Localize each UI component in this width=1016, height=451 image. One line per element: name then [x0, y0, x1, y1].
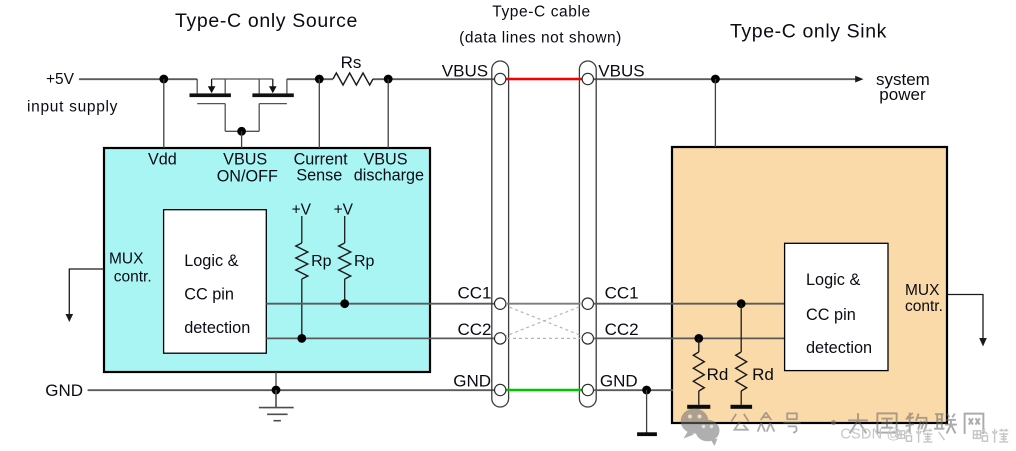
- svg-text:CC2: CC2: [605, 320, 639, 339]
- node current sense junction: [315, 75, 324, 84]
- svg-text:VBUS: VBUS: [442, 61, 488, 80]
- connector plug left: [492, 61, 509, 407]
- wire gate connector: [225, 130, 259, 132]
- wire VBUS through cable (red): [506, 78, 582, 81]
- svg-text:GND: GND: [453, 372, 491, 391]
- pin circle GND left: [495, 384, 506, 395]
- resistor Rd2: [740, 304, 742, 352]
- svg-text:Vdd: Vdd: [148, 151, 177, 169]
- resistor Rp1: [301, 216, 303, 243]
- watermark text 略懂、略懂: [897, 429, 1008, 443]
- wire VBUS ON/OFF pin: [241, 131, 243, 148]
- svg-text:Rd: Rd: [707, 365, 729, 384]
- wire GND main: [88, 389, 495, 391]
- svg-text:GND: GND: [600, 372, 638, 391]
- svg-text:Type-C cable: Type-C cable: [492, 3, 591, 20]
- svg-text:Logic &: Logic &: [806, 271, 860, 289]
- svg-text:+V: +V: [334, 201, 354, 218]
- svg-text:contr.: contr.: [905, 298, 943, 315]
- node GND junction (sink): [642, 386, 651, 395]
- resistor Rs: [333, 73, 373, 85]
- wire CC1 (source): [266, 303, 494, 305]
- IC U2 sink controller box: [672, 147, 947, 423]
- watermark text 大国物联网: [848, 413, 983, 434]
- IC U1 source controller box: [104, 148, 430, 372]
- node CC2/Rd1 junction: [694, 334, 703, 343]
- pin circle CC1 right: [582, 298, 593, 309]
- svg-text:Type-C only Sink: Type-C only Sink: [730, 20, 887, 42]
- svg-text:MUX: MUX: [109, 251, 144, 268]
- transistor Q2 (PMOS): [252, 79, 293, 131]
- svg-text:CC pin: CC pin: [806, 306, 856, 324]
- wire source box to GND: [275, 372, 277, 390]
- svg-text:Rp: Rp: [311, 253, 332, 270]
- MUX control arrow (source): [69, 269, 104, 315]
- logic block U1: [164, 210, 267, 354]
- svg-text:CSDN @: CSDN @: [840, 427, 901, 443]
- svg-text:Type-C only Source: Type-C only Source: [175, 10, 358, 32]
- svg-text:CC pin: CC pin: [184, 286, 234, 304]
- wire CC1 through cable: [507, 303, 581, 305]
- pin circle CC2 left: [495, 333, 506, 344]
- wire CC1 (sink): [593, 303, 784, 305]
- watermark wechat icon: [681, 408, 720, 446]
- wire Vdd pin: [163, 79, 165, 148]
- pin circle VBUS right: [582, 73, 593, 84]
- pin circle CC2 right: [582, 333, 593, 344]
- pin circle GND right: [582, 384, 593, 395]
- svg-text:VBUS: VBUS: [598, 61, 644, 80]
- ground bar Rd1: [687, 405, 710, 409]
- transistor Q1 (PMOS): [190, 79, 231, 131]
- watermark dot separator: [831, 420, 836, 425]
- svg-text:Rd: Rd: [752, 365, 774, 384]
- svg-text:GND: GND: [45, 381, 83, 400]
- wire CC2 (source): [266, 337, 494, 339]
- crossover dashed CC1-CC2: [504, 305, 584, 337]
- ground symbol (sink): [646, 390, 648, 433]
- svg-text:input supply: input supply: [27, 99, 118, 116]
- crossover dashed CC2-CC1: [504, 305, 584, 337]
- node gate junction: [237, 127, 246, 136]
- node +5V/Vdd junction: [159, 75, 168, 84]
- svg-text:Logic &: Logic &: [184, 252, 238, 270]
- svg-text:contr.: contr.: [114, 268, 152, 285]
- svg-text:detection: detection: [184, 319, 250, 337]
- svg-text:Rp: Rp: [354, 253, 375, 270]
- svg-text:detection: detection: [806, 339, 872, 357]
- node GND junction (source): [272, 386, 281, 395]
- connector plug right: [579, 61, 596, 407]
- node CC1/Rp2 junction: [340, 299, 349, 308]
- resistor Rd1: [698, 338, 700, 352]
- ground bar Rd2: [731, 405, 753, 409]
- svg-text:Sense: Sense: [296, 166, 342, 184]
- wire FET top connector: [212, 78, 273, 80]
- svg-text:MUX: MUX: [905, 282, 940, 299]
- svg-text:power: power: [879, 85, 926, 104]
- svg-text:+5V: +5V: [46, 71, 75, 88]
- svg-text:+V: +V: [292, 201, 312, 218]
- node CC1/Rd2 junction: [737, 299, 746, 308]
- wire VBUS sink pin: [714, 79, 716, 147]
- pin circle VBUS left: [495, 73, 506, 84]
- wire VBUS discharge pin: [387, 79, 389, 148]
- wire CC2 (sink): [593, 337, 784, 339]
- svg-text:CC1: CC1: [605, 283, 639, 302]
- arrow to system power: [855, 76, 863, 83]
- wire GND through cable (green): [506, 389, 582, 392]
- node CC2/Rp1 junction: [297, 334, 306, 343]
- wire rail right (cable to sink): [593, 78, 855, 80]
- wire CC2 through cable (dashed): [507, 337, 581, 339]
- wire +5V rail left: [79, 78, 197, 80]
- resistor Rp2: [344, 216, 346, 243]
- node VBUS discharge junction: [384, 75, 393, 84]
- svg-text:(data lines not shown): (data lines not shown): [459, 29, 622, 46]
- wire rail mid (FET to Rs to cable): [287, 78, 333, 80]
- pin circle CC1 left: [495, 298, 506, 309]
- svg-text:ON/OFF: ON/OFF: [217, 168, 278, 186]
- MUX control arrow (sink): [947, 295, 983, 339]
- ground earth symbol (source): [259, 390, 294, 421]
- logic block U2: [785, 243, 888, 370]
- svg-text:CC1: CC1: [457, 283, 491, 302]
- svg-text:VBUS: VBUS: [223, 151, 267, 169]
- wire GND (sink): [593, 389, 673, 391]
- node VBUS sink junction: [711, 75, 720, 84]
- svg-text:Rs: Rs: [341, 53, 362, 72]
- svg-text:CC2: CC2: [457, 320, 491, 339]
- svg-text:discharge: discharge: [354, 166, 424, 184]
- wire Current Sense pin: [318, 79, 320, 148]
- watermark text 公众号: [731, 412, 800, 432]
